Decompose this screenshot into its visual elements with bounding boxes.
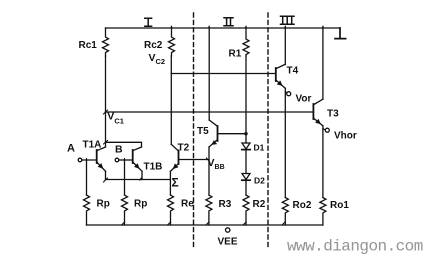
resistor R1 xyxy=(243,28,249,56)
svg-text:Vhor: Vhor xyxy=(334,131,357,142)
svg-text:T5: T5 xyxy=(197,126,209,137)
svg-text:T4: T4 xyxy=(287,66,299,77)
svg-text:Rc1: Rc1 xyxy=(79,40,98,51)
svg-text:Rp: Rp xyxy=(97,199,110,210)
svg-text:D1: D1 xyxy=(254,143,265,153)
section label II xyxy=(224,18,233,26)
svg-text:Vor: Vor xyxy=(296,94,312,105)
svg-text:T1B: T1B xyxy=(144,162,163,173)
svg-text:B: B xyxy=(115,144,123,156)
terminal VEE xyxy=(226,228,230,232)
terminal B xyxy=(115,158,119,162)
transistor T1A xyxy=(82,147,106,180)
diode D2 xyxy=(242,174,250,196)
resistor Re xyxy=(168,195,174,225)
resistor Rp2 xyxy=(122,195,128,225)
node Vc1 tick xyxy=(104,110,108,114)
wire Rc2 bottom / T2 collector xyxy=(170,56,172,144)
svg-text:D2: D2 xyxy=(254,176,265,186)
terminal A xyxy=(78,158,82,162)
section divider dashed II/III xyxy=(267,13,269,247)
transistor T2 xyxy=(170,144,209,195)
resistor Rp1 xyxy=(84,195,90,225)
svg-text:www.diangon.com: www.diangon.com xyxy=(287,238,423,256)
section divider dashed I/II xyxy=(193,13,195,247)
resistor Rc2 xyxy=(169,28,175,56)
svg-text:Σ: Σ xyxy=(172,176,179,190)
node Vc2 wire to T4 base xyxy=(171,73,275,75)
svg-text:Rc2: Rc2 xyxy=(144,40,163,51)
svg-text:R1: R1 xyxy=(229,49,242,60)
ground xyxy=(335,28,346,39)
transistor T4 xyxy=(276,28,287,198)
svg-text:Ro1: Ro1 xyxy=(330,200,349,211)
resistor R2 xyxy=(243,195,249,225)
diode D1 xyxy=(242,143,250,174)
svg-text:T1A: T1A xyxy=(83,140,102,151)
svg-text:T3: T3 xyxy=(327,109,339,120)
svg-text:R3: R3 xyxy=(219,199,232,210)
svg-text:A: A xyxy=(67,143,75,155)
section label I xyxy=(145,18,152,26)
wire T1B collector tie xyxy=(106,142,142,147)
resistor R3 xyxy=(206,195,212,225)
node T5 base junction dot xyxy=(244,132,247,135)
svg-text:Ro2: Ro2 xyxy=(293,200,312,211)
svg-text:R2: R2 xyxy=(253,199,266,210)
resistor Rc1 xyxy=(103,28,109,56)
terminal Vhor xyxy=(325,128,329,132)
negative supply rail VEE xyxy=(87,224,323,226)
transistor T5 xyxy=(209,28,246,195)
terminal Vor xyxy=(287,92,291,96)
wire Rp2 drop xyxy=(124,160,126,195)
junction ticks on top rail xyxy=(172,27,323,29)
resistor Ro2 xyxy=(282,198,288,226)
wire Vc1 vertical xyxy=(105,56,107,147)
section label III xyxy=(281,16,295,24)
wire R1 bottom to diode chain xyxy=(245,56,247,143)
junction ticks on VEE rail xyxy=(122,222,286,225)
junction tick emitter rail xyxy=(87,141,210,183)
svg-text:T2: T2 xyxy=(178,143,190,154)
wire Vc1 node to T3 base xyxy=(106,111,314,113)
transistor T1B xyxy=(119,147,142,180)
svg-text:Re: Re xyxy=(181,199,194,210)
transistor T3 xyxy=(313,28,324,198)
top supply rail xyxy=(106,27,341,29)
wire Rp1 drop xyxy=(86,160,88,195)
resistor Ro1 xyxy=(320,198,326,226)
svg-text:VEE: VEE xyxy=(218,237,238,248)
svg-text:Rp: Rp xyxy=(134,199,147,210)
wire emitter rail to sigma node xyxy=(106,179,171,181)
